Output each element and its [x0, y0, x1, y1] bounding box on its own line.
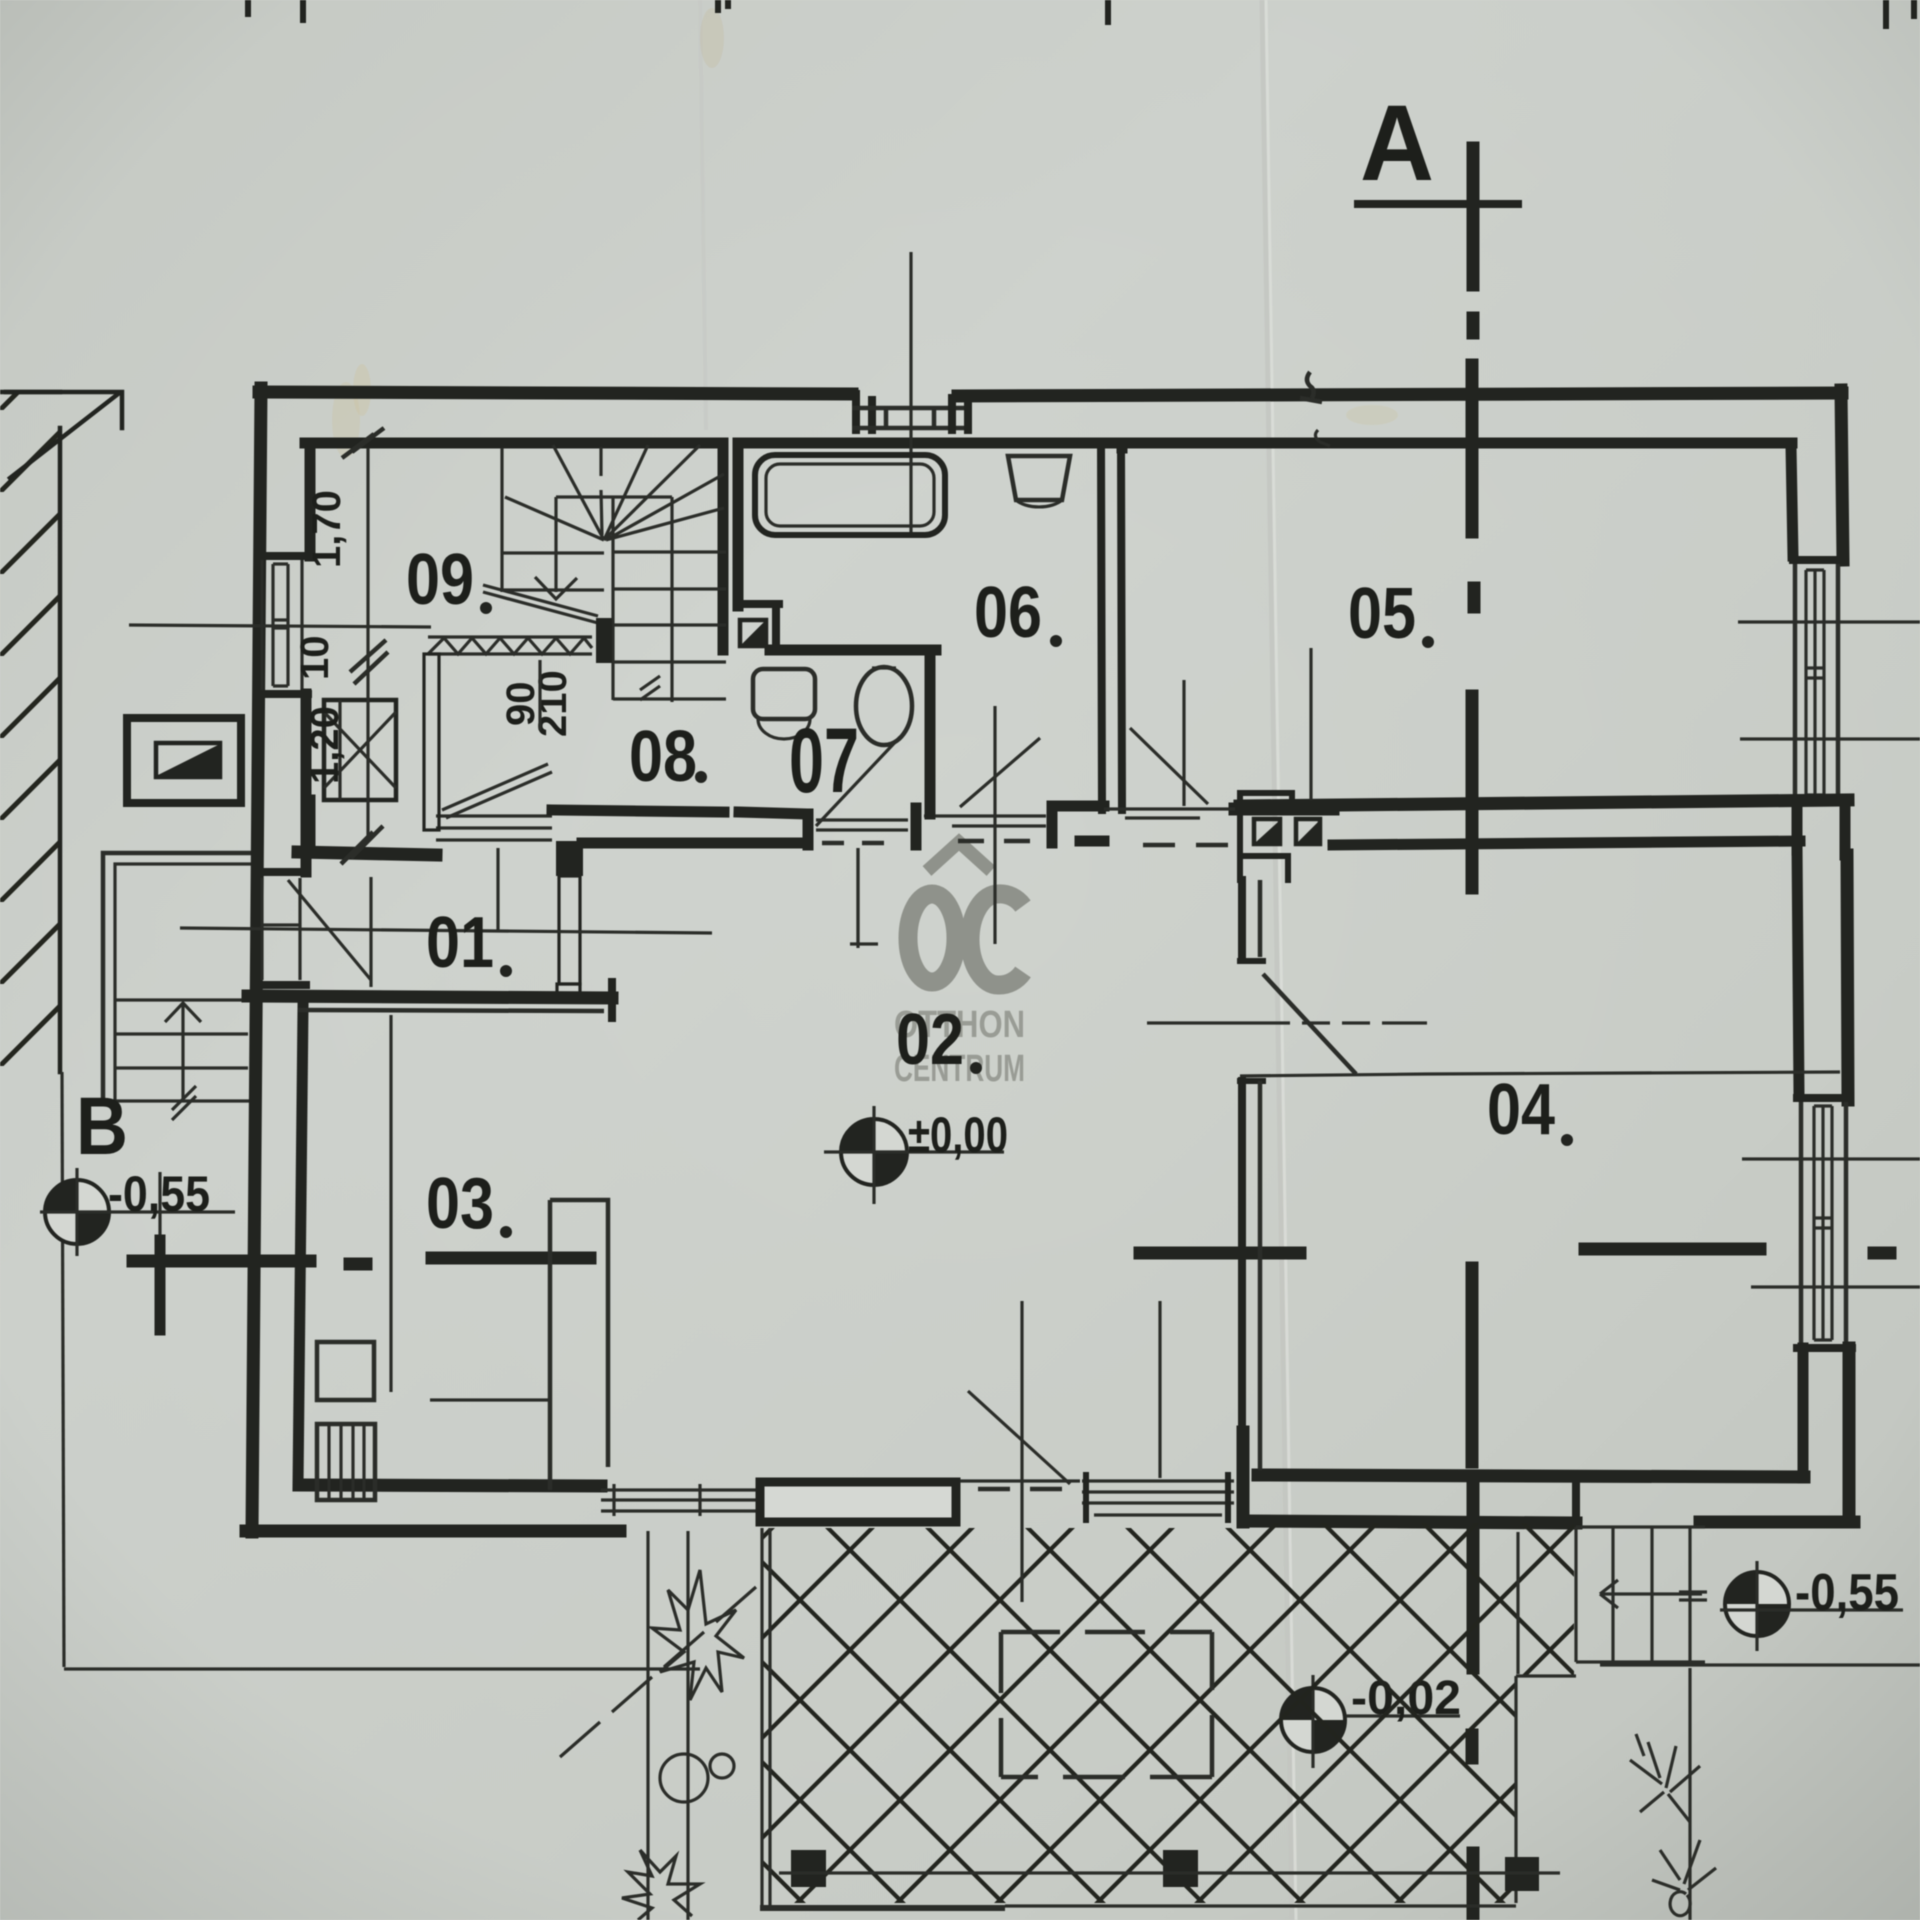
jamb east of door D5	[1047, 806, 1058, 843]
west wall outer face	[252, 388, 261, 1532]
jamb between D4 and D5	[911, 808, 922, 845]
terrace bottom edge	[760, 1905, 1005, 1911]
door 05-02 dashes	[1143, 843, 1228, 848]
window E1 outer lines	[1795, 564, 1838, 800]
window E2 end caps	[1797, 1098, 1852, 1348]
west stair treads	[112, 1000, 250, 1101]
tick marks on dim	[341, 428, 388, 864]
door D4 swing in 07	[816, 737, 900, 826]
window W4 jambs	[1086, 1475, 1228, 1520]
glass square east	[1296, 819, 1320, 844]
stair black pier	[596, 618, 612, 663]
splash star upper	[652, 1570, 744, 1700]
door 02-04 dashed swing line	[1147, 1021, 1427, 1024]
svg-text:A: A	[1360, 82, 1434, 203]
kitchen box 1	[317, 1342, 374, 1400]
steps arrow	[1600, 1580, 1702, 1608]
door 02-04 bottom jamb cap	[1240, 1078, 1263, 1084]
paper stain above top window	[1346, 405, 1398, 425]
svg-text:08: 08	[629, 717, 697, 797]
post line	[779, 1871, 1560, 1874]
terrace west edge double line	[762, 1528, 770, 1908]
paper crease right	[1262, 0, 1292, 1920]
vertical below steps	[1688, 1668, 1691, 1920]
elevation marker -0,55 at B	[40, 1168, 235, 1256]
svg-text:-0,55: -0,55	[1795, 1564, 1899, 1622]
east wall window E1 sill stubs	[1793, 560, 1843, 802]
wall 08 south upper face part2	[739, 812, 806, 814]
kitchen box 2 stove	[317, 1424, 375, 1500]
wall 08 south upper face	[552, 810, 724, 812]
top window ladder	[852, 408, 968, 428]
top ticks left	[248, 0, 303, 20]
window E2 sashes	[1814, 1106, 1832, 1340]
wardrobe room 09	[324, 700, 396, 800]
pier 01/02 hatched	[559, 876, 580, 984]
stair rail double line with arrow	[483, 585, 598, 623]
shaft box west	[127, 718, 241, 803]
window E2 outer lines	[1801, 1102, 1846, 1344]
north wall inner face	[305, 438, 722, 449]
svg-text:10: 10	[293, 636, 337, 681]
sink room 06	[1008, 456, 1070, 500]
wall 01/03 inner line	[298, 1010, 604, 1011]
door D5 leaf line	[993, 706, 996, 944]
window E2 dim lines	[1742, 1159, 1920, 1287]
room 06 west wall jog	[741, 604, 779, 648]
terrace post middle	[1163, 1850, 1198, 1887]
top ticks right	[1886, 0, 1914, 26]
door D4 threshold 07-hall	[816, 820, 908, 830]
wall 05/04 bottom face	[1333, 841, 1800, 845]
stair dashed up line	[601, 447, 602, 535]
stair fan spokes	[505, 445, 724, 540]
west wall inner face room 03	[298, 1008, 303, 1486]
terrace step edge	[1516, 1674, 1576, 1677]
room 05 south wall	[1235, 803, 1333, 816]
dim vline at 01	[496, 848, 499, 932]
section line B-B dash 2	[350, 1258, 366, 1271]
room 04 east inner face lower	[1798, 1348, 1809, 1478]
svg-text:09: 09	[406, 540, 474, 620]
svg-text:210: 210	[531, 670, 575, 737]
watermark roof chevron	[927, 842, 991, 871]
tick at -0,55	[1679, 1592, 1707, 1600]
door D3 swing into 09	[442, 764, 552, 818]
hall wall upper face east bit	[1052, 801, 1104, 812]
north-east inner corner verticals	[1117, 443, 1128, 448]
section line A dashes	[1467, 148, 1480, 285]
wall 06/05 divider west line	[1101, 443, 1102, 810]
stair void box	[556, 497, 672, 702]
vent box at 06	[740, 620, 766, 646]
west wall inner face below W1	[301, 694, 312, 872]
stair treads left	[502, 553, 604, 590]
section line A crossbar	[1358, 200, 1518, 208]
wall 02/04 lower part	[1238, 1081, 1246, 1470]
wall 01/03 thick	[248, 996, 612, 998]
thin divider line 03/02	[389, 1015, 392, 1392]
top window centerline	[909, 252, 912, 535]
door D5 swing in 06	[960, 738, 1040, 807]
pier 01/02 black head	[556, 841, 583, 876]
room 04 south inner face	[1258, 1475, 1804, 1477]
east wall between E1 and 04	[1797, 802, 1845, 855]
dim vline hall	[856, 848, 859, 948]
toilet room 07	[753, 669, 815, 719]
below steps line	[1600, 1663, 1920, 1666]
section line B-B dot 6	[1874, 1247, 1890, 1260]
dashed diagonal through star	[560, 1587, 756, 1757]
door D4 leaf into 02	[850, 848, 878, 944]
porch outline	[103, 853, 255, 1105]
wall 08 south lower face	[582, 838, 800, 849]
property line south	[64, 1667, 700, 1670]
room 03 south inner face	[300, 1485, 601, 1486]
east wall outer face upper	[1841, 390, 1843, 560]
terrace post east	[1505, 1857, 1539, 1891]
window W1 in west wall	[258, 556, 308, 694]
elevation marker -0,02 terrace	[1281, 1675, 1460, 1768]
north wall inner face east	[742, 438, 1792, 449]
door 05-02 threshold	[1104, 809, 1235, 818]
terrace door leaf line into 02	[1020, 1301, 1023, 1602]
corner 02/04 south	[1237, 1432, 1250, 1522]
dim extension vertical	[366, 448, 369, 840]
room 09 south wall west part	[298, 852, 436, 855]
entry door D1 swing	[288, 877, 371, 987]
terrace french door leaf D2	[760, 1482, 956, 1522]
terrace east edge	[1514, 1676, 1517, 1903]
room 04 east outer face lower	[1843, 1348, 1856, 1522]
door 05-02 leaf	[1182, 680, 1185, 806]
west stair tick	[172, 1086, 196, 1120]
neighbour strip outline	[0, 392, 122, 1072]
watermark C letter	[970, 894, 1023, 985]
svg-text:02: 02	[896, 1000, 964, 1080]
stair treads right	[613, 552, 726, 699]
kitchen line	[430, 1398, 550, 1401]
svg-text:B: B	[76, 1081, 128, 1172]
dim line through 09	[129, 625, 431, 627]
section line B crossbar	[133, 1255, 310, 1268]
neighbour hatched strip	[0, 392, 60, 1072]
bidet room 07	[856, 667, 912, 745]
jamb west of door D4	[803, 814, 814, 845]
wall stub below wardrobe	[305, 800, 316, 852]
section line B-B dash 5	[1585, 1243, 1760, 1256]
splash star lower	[622, 1850, 700, 1920]
door D3 threshold 09-01	[436, 816, 552, 840]
porch inner line	[115, 864, 255, 1105]
room 04 south outer face	[1244, 1521, 1854, 1523]
section line B vertical dash	[155, 1240, 166, 1330]
door 05-02 swing	[1130, 728, 1208, 804]
svg-text:06: 06	[974, 573, 1042, 653]
entry door D1 threshold	[256, 872, 306, 985]
svg-text:±0,00: ±0,00	[908, 1107, 1008, 1163]
west stair up arrow	[165, 1003, 201, 1098]
svg-text:04: 04	[1487, 1070, 1555, 1150]
north wall outer face west part	[259, 392, 852, 394]
pier with glass squares 02/05/04	[1240, 793, 1332, 880]
terrace post west	[791, 1850, 826, 1887]
top ticks center	[718, 0, 1108, 22]
room 03 south outer face	[246, 1525, 620, 1538]
svg-text:01: 01	[426, 903, 494, 983]
dim line room 01	[180, 928, 712, 933]
svg-text:05: 05	[1348, 574, 1416, 654]
hall wall lower face east bit	[1080, 836, 1104, 847]
wall 02/04 upper part	[1238, 880, 1246, 957]
north wall outer face east part	[958, 393, 1842, 396]
terrace door swing	[968, 1391, 1070, 1484]
wall 01/03 end cap	[608, 982, 616, 1018]
window W4 ladder	[1082, 1481, 1234, 1515]
svg-text:1,20: 1,20	[303, 706, 347, 784]
stair left edge	[500, 448, 503, 592]
dim line 04 north	[1427, 1072, 1840, 1074]
wall 05/04 top face	[1240, 800, 1848, 806]
elevation marker -0,55 southeast	[1720, 1561, 1903, 1651]
steps treads	[1613, 1527, 1690, 1662]
top window east stub	[952, 398, 968, 430]
dim vline room 05	[1309, 648, 1312, 800]
pen squiggle above wall	[1300, 372, 1322, 402]
section line B-B dash 3	[432, 1252, 590, 1265]
dim line 90/210 vertical	[538, 660, 541, 730]
door 02-04 leaf diagonal	[1263, 974, 1356, 1074]
plant doodle southeast	[1630, 1734, 1700, 1822]
hatched wall 08 vertical	[424, 654, 439, 830]
window E1 dim line upper	[1738, 620, 1920, 623]
room 04 east outer face	[1847, 855, 1848, 1100]
property line west	[62, 1072, 64, 1667]
walkway west verticals	[648, 1531, 688, 1920]
glass square west	[1254, 819, 1280, 844]
wall 06/07 divider	[770, 645, 936, 656]
watermark O letter	[908, 894, 956, 982]
steps box	[1576, 1527, 1705, 1662]
elevation marker +0,00 in 02	[824, 1106, 1004, 1204]
bathtub room 06	[755, 455, 945, 535]
paper stain top center	[700, 8, 724, 68]
opening dashes east of D2	[960, 1479, 1080, 1482]
door 02-04 bottom line	[1240, 1074, 1427, 1076]
wall 06/05 divider east line	[1121, 443, 1122, 810]
garden circles	[660, 1754, 708, 1802]
terrace hatch	[762, 1523, 1574, 1903]
room 04 south door jamb	[1572, 1481, 1580, 1523]
svg-text:07: 07	[789, 710, 859, 812]
section line B-B dash 4	[1140, 1247, 1300, 1260]
neighbour strip top diagonal	[6, 392, 118, 478]
table dashed rect	[1001, 1632, 1212, 1777]
terrace inner vertical line	[1516, 1532, 1519, 1674]
top window module west stub	[856, 394, 872, 430]
paper crease top center	[700, 0, 706, 430]
paper stain top left	[332, 382, 360, 458]
window E1 inner sashes	[1806, 570, 1824, 795]
window E1 dim line lower	[1740, 737, 1920, 740]
B dimension tick	[158, 1172, 161, 1311]
svg-text:03: 03	[426, 1164, 494, 1244]
small tick 08	[640, 676, 660, 700]
kitchen window W3 ladder	[601, 1484, 757, 1516]
door 02-04 top jamb cap	[1240, 958, 1263, 964]
room 07 east wall	[925, 650, 936, 814]
dim vertical at 02 south	[1158, 1301, 1161, 1478]
room 09 west wall	[305, 443, 316, 556]
east wall inner face upper	[1791, 446, 1793, 556]
wall 09/06 divider	[718, 443, 729, 650]
kitchen counter tall rect	[550, 1200, 608, 1490]
room 04 east inner face	[1797, 845, 1799, 1095]
hatched wall 08 horizontal zigzag	[428, 637, 592, 654]
svg-text:1,70: 1,70	[305, 490, 349, 568]
pier 01/02 foot box	[557, 984, 580, 996]
door D5 threshold 06-hall	[924, 816, 1046, 826]
